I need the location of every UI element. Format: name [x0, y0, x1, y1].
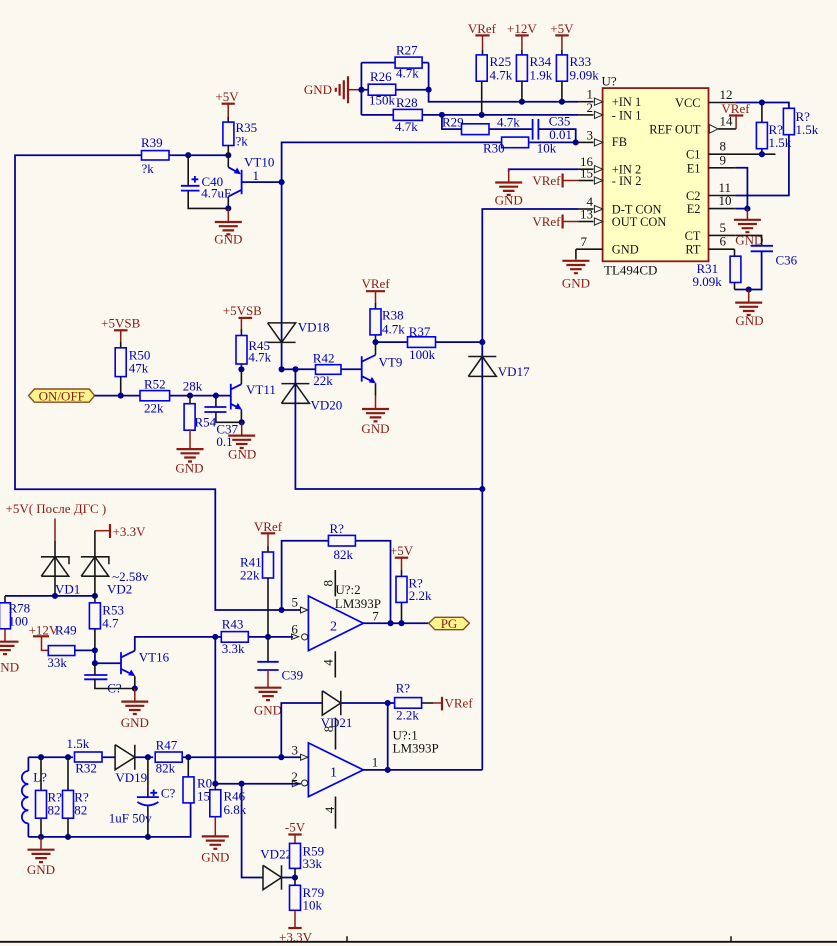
resistor R42	[296, 350, 362, 388]
pin R41 bottom long	[267, 578, 269, 637]
power port +5V( После ДГС )	[6, 501, 107, 541]
wire bottom rail	[28, 803, 190, 837]
node junction U1 out/pullup	[385, 767, 391, 773]
svg-text:13: 13	[580, 207, 593, 222]
node junction L? top	[38, 754, 44, 760]
svg-text:100k: 100k	[409, 347, 436, 362]
svg-text:~2.58v: ~2.58v	[112, 569, 149, 584]
svg-text:REF OUT: REF OUT	[649, 122, 701, 136]
svg-text:1: 1	[330, 766, 337, 781]
svg-text:82: 82	[74, 803, 87, 818]
resistor R? 82 (right)	[63, 757, 89, 837]
svg-text:82: 82	[48, 803, 61, 818]
svg-text:7: 7	[372, 609, 379, 624]
svg-text:R29: R29	[442, 115, 464, 130]
svg-text:1uF 50v: 1uF 50v	[109, 810, 152, 825]
svg-text:- IN 1: - IN 1	[612, 108, 642, 122]
capacitor C39	[257, 637, 303, 683]
svg-text:+5V: +5V	[550, 21, 574, 36]
svg-text:R47: R47	[156, 737, 178, 752]
svg-text:9: 9	[720, 152, 727, 167]
node junction VD21/R?	[385, 700, 391, 706]
svg-text:?k: ?k	[142, 161, 155, 176]
resistor R28	[361, 95, 422, 134]
svg-text:E1: E1	[687, 161, 701, 175]
power port VRef at pin13	[532, 214, 578, 229]
svg-text:28k: 28k	[183, 378, 203, 393]
ground GND left rotated (R26 net)	[304, 76, 360, 103]
svg-text:10k: 10k	[537, 140, 557, 155]
pin R33 bottom	[561, 81, 563, 102]
pin Ra top	[761, 103, 763, 123]
pin VT9 collector	[375, 342, 377, 355]
resistor R52	[140, 377, 170, 416]
svg-text:- IN 2: - IN 2	[612, 174, 642, 188]
port ON/OFF	[29, 388, 95, 403]
pin 7	[576, 234, 603, 249]
pin 1	[578, 87, 602, 106]
svg-text:GND: GND	[495, 193, 523, 208]
svg-text:5: 5	[291, 595, 298, 610]
pin 16	[578, 154, 602, 173]
pin 15	[578, 166, 602, 185]
resistor R50	[115, 348, 150, 377]
resistor R29	[442, 115, 532, 135]
pin R25 bottom long	[481, 81, 483, 115]
svg-text:R?: R?	[396, 680, 411, 695]
svg-text:6: 6	[291, 622, 298, 637]
pin R59 bottom	[294, 868, 296, 877]
svg-text:PG: PG	[441, 616, 458, 631]
wire U1 pin3 rail	[28, 756, 300, 758]
ground GND under R46	[201, 817, 229, 865]
pin VT16 emitter	[134, 676, 136, 688]
svg-text:10k: 10k	[303, 898, 323, 913]
pin R50 bottom	[120, 377, 122, 396]
svg-text:150k: 150k	[369, 93, 396, 108]
svg-text:GND: GND	[612, 243, 639, 257]
diode VD2 zener	[81, 531, 149, 597]
power port +3.3V bottom	[279, 910, 313, 944]
resistor R? 82k	[328, 521, 355, 562]
svg-text:+5VSB: +5VSB	[101, 315, 140, 330]
node junction VD1	[52, 593, 58, 599]
svg-text:R28: R28	[396, 95, 418, 110]
svg-text:4.7k: 4.7k	[395, 119, 418, 134]
svg-text:R54: R54	[195, 415, 217, 430]
wire U2 output	[363, 622, 428, 624]
svg-text:?k: ?k	[236, 134, 249, 149]
svg-text:R38: R38	[382, 308, 404, 323]
resistor R35	[223, 120, 257, 149]
resistor R38	[370, 308, 405, 337]
IC U? right pin names	[649, 96, 701, 257]
capacitor C37	[204, 407, 238, 449]
svg-text:VD19: VD19	[115, 770, 147, 785]
wire pin10	[735, 208, 747, 210]
node junction R59/R79/VD22	[292, 874, 298, 880]
svg-text:GND: GND	[175, 460, 203, 475]
resistor R53	[89, 596, 124, 651]
svg-text:4.7k: 4.7k	[497, 115, 520, 130]
resistor R39	[141, 135, 169, 176]
svg-text:VCC: VCC	[675, 96, 700, 110]
resistor R25	[476, 54, 513, 83]
svg-text:7: 7	[581, 234, 588, 249]
node junction C? bottom	[145, 834, 151, 840]
svg-text:+5V: +5V	[215, 89, 239, 104]
node junction R33 bottom	[559, 99, 565, 105]
wire vertical B R43 node to pin2 rail	[214, 637, 216, 784]
power port VRef above R38	[362, 276, 391, 309]
wire U1 output to DTCON vertical	[363, 769, 482, 771]
transistor VT9 (NPN)	[362, 354, 403, 383]
node junction feedback/output	[387, 620, 393, 626]
ground GND under R54	[175, 430, 203, 475]
node junction VT10 collector node	[225, 205, 231, 211]
svg-text:OUT CON: OUT CON	[612, 215, 667, 229]
node junction VT10 out / FB	[279, 179, 285, 185]
node junction C37 top	[213, 393, 219, 399]
node junction VD20 top	[292, 366, 298, 372]
svg-text:C2: C2	[686, 189, 700, 203]
power port +5V (above R35)	[215, 89, 239, 122]
diode VD1 zener	[41, 541, 80, 597]
svg-text:9.09k: 9.09k	[693, 274, 723, 289]
wire pin5 to C36	[735, 235, 761, 245]
resistor R78	[0, 596, 30, 629]
svg-text:CT: CT	[685, 229, 701, 243]
resistor R43	[215, 617, 293, 657]
svg-text:15: 15	[580, 166, 593, 181]
op-amp U?:2 LM393P	[291, 570, 381, 678]
node junction R?d bottom	[65, 834, 71, 840]
resistor R? 82 (left)	[36, 757, 63, 837]
resistor R49	[47, 646, 95, 670]
ground GND under VT16	[121, 689, 149, 731]
resistor R? 2.2k (PG pullup)	[396, 576, 432, 604]
resistor R27	[361, 43, 428, 81]
svg-text:FB: FB	[612, 135, 627, 149]
resistor R? 1.5k (left)	[756, 122, 791, 150]
resistor R34	[516, 54, 552, 83]
transistor VT16 (NPN)	[121, 650, 170, 677]
pin VT10 emitter top	[227, 155, 229, 167]
wire VD18 node to R42	[282, 368, 296, 370]
svg-text:+5V: +5V	[390, 543, 414, 558]
svg-text:C35: C35	[549, 113, 571, 128]
resistor R? 1.5k (right)	[783, 108, 818, 137]
node junction VD18 bottom	[279, 366, 285, 372]
IC U? TL494CD body	[602, 74, 709, 278]
wire D-T CON net long vertical	[482, 209, 578, 770]
power port +5VSB above R45	[223, 303, 262, 336]
svg-text:3: 3	[291, 742, 298, 757]
svg-text:VT10: VT10	[244, 155, 274, 170]
svg-text:4.7uF: 4.7uF	[201, 186, 231, 201]
power port +3.3V at VD2	[95, 524, 146, 539]
svg-text:4: 4	[320, 659, 335, 666]
svg-text:4: 4	[322, 806, 337, 813]
pin 5	[709, 220, 736, 236]
node junction L? bottom	[38, 834, 44, 840]
node junction DTCON/VD20 run	[479, 486, 485, 492]
wire C36 bottom	[735, 251, 762, 289]
diode VD18	[268, 320, 330, 343]
svg-text:R49: R49	[55, 622, 77, 637]
pin 13	[578, 207, 602, 226]
wire +IN1 net (pin 1 line)	[429, 63, 579, 102]
power port +12V at R49	[29, 622, 77, 650]
node junction VCC/Ra top	[759, 99, 765, 105]
diode VD22	[260, 847, 292, 890]
capacitor C40	[181, 174, 231, 201]
pin R35 bottom	[227, 146, 229, 156]
wire VD22 branch	[242, 784, 263, 878]
pin R45 bottom	[240, 364, 242, 369]
node junction R25 bottom	[479, 112, 485, 118]
node junction R46 top	[212, 781, 218, 787]
node junction R?d top	[65, 754, 71, 760]
svg-text:3: 3	[587, 127, 594, 142]
wire C40 pins	[188, 155, 228, 208]
power port VRef at pin15	[532, 173, 578, 188]
node junction pin5/feedback	[279, 607, 285, 613]
ground GND at pin7	[562, 249, 590, 290]
pin 10	[709, 193, 736, 209]
svg-text:2.2k: 2.2k	[409, 588, 432, 603]
resistor R30	[483, 137, 557, 155]
svg-text:R37: R37	[409, 324, 431, 339]
svg-text:TL494CD: TL494CD	[604, 263, 657, 278]
power port +5V (above R33)	[550, 21, 574, 55]
svg-text:82k: 82k	[334, 547, 354, 562]
resistor R46	[210, 784, 247, 817]
node junction R54 top	[187, 393, 193, 399]
svg-text:+5VSB: +5VSB	[223, 303, 262, 318]
resistor R? 2.2k (U1 pullup)	[395, 680, 422, 722]
pin 12	[709, 87, 736, 103]
pin 2	[578, 100, 602, 119]
svg-text:4.7: 4.7	[102, 616, 119, 631]
svg-text:R?: R?	[330, 521, 345, 536]
svg-text:GND: GND	[0, 660, 19, 675]
power port VRef at pin14	[721, 101, 750, 129]
ground GND under VT11	[228, 422, 256, 461]
ground GND under R78	[0, 629, 19, 675]
svg-text:2.2k: 2.2k	[396, 707, 419, 722]
wire U1 pin2 rail	[215, 783, 300, 785]
power port -5V	[285, 820, 306, 844]
power port +12V	[507, 21, 537, 55]
port PG	[429, 616, 470, 631]
node junction R39/C40	[185, 152, 191, 158]
pin 14 output arrow	[709, 114, 736, 134]
resistor R37	[376, 324, 483, 362]
capacitor C? 1uF 50v	[109, 757, 176, 837]
node junction C? top	[145, 754, 151, 760]
svg-text:6.8k: 6.8k	[224, 802, 247, 817]
wire VD1/VD2 rail	[5, 595, 95, 597]
svg-text:U?:2: U?:2	[335, 582, 360, 597]
transistor VT10 (PNP)	[228, 155, 274, 197]
capacitor C35	[533, 113, 572, 142]
wire VD22 to R59/R79 node	[282, 877, 296, 879]
pin 9	[709, 152, 736, 168]
svg-text:GND: GND	[201, 850, 229, 865]
svg-text:R42: R42	[313, 350, 335, 365]
wire C37 pins	[216, 396, 242, 423]
pin VT10 collector bottom	[227, 197, 229, 209]
svg-text:+IN 1: +IN 1	[612, 95, 641, 109]
node junction R38/VT9/R37	[372, 339, 378, 345]
svg-text:VRef: VRef	[468, 21, 497, 36]
node junction pin8/Ra	[759, 151, 765, 157]
wire net ON/OFF run: left vertical + bottom horizontal to U2 pin5	[15, 155, 301, 610]
power port VRef right of R?	[422, 696, 474, 711]
node junction R41/C39	[265, 634, 271, 640]
node junction GND/R26 left	[358, 87, 364, 93]
pin VT11 emitter	[240, 410, 242, 423]
ground GND under R31/C36	[735, 290, 763, 329]
svg-text:VD22: VD22	[260, 847, 292, 862]
svg-text:VRef: VRef	[532, 214, 561, 229]
svg-text:R26: R26	[370, 69, 392, 84]
svg-text:R30: R30	[483, 140, 505, 155]
pin 11	[709, 180, 736, 196]
svg-text:ON/OFF: ON/OFF	[39, 388, 85, 403]
diode VD21	[321, 691, 353, 730]
resistor R33	[556, 54, 599, 83]
IC U? left pin names	[612, 95, 667, 257]
svg-text:C?: C?	[161, 786, 176, 801]
wire pin9 to E-junction	[735, 168, 747, 209]
svg-text:VRef: VRef	[362, 276, 391, 291]
ground GND at E2	[734, 209, 763, 248]
svg-text:4.7k: 4.7k	[396, 66, 419, 81]
capacitor C? (VT16)	[84, 675, 122, 696]
svg-text:9.09k: 9.09k	[570, 68, 600, 83]
wire VD21 net	[281, 703, 394, 757]
wire VT10 base to FB node	[246, 181, 282, 183]
inductor L?	[22, 757, 47, 837]
wire pin16 to GND corner	[509, 169, 579, 172]
svg-text:8: 8	[320, 580, 335, 587]
node junction R31/C36 gnd	[746, 286, 752, 292]
node junction VT11 emitter/C37	[239, 419, 245, 425]
svg-text:1.5k: 1.5k	[796, 122, 819, 137]
ground GND bottom left	[27, 837, 55, 877]
svg-text:4.7k: 4.7k	[490, 68, 513, 83]
sheet border bottom	[0, 936, 837, 942]
wire pin11 to Rb bottom	[735, 135, 789, 196]
node junction R29 tap	[439, 112, 445, 118]
ground GND under VT10	[214, 208, 242, 246]
wire R53 node to base node	[94, 650, 96, 663]
svg-text:VT11: VT11	[246, 382, 276, 397]
svg-text:1.9k: 1.9k	[530, 68, 553, 83]
resistor R0	[183, 757, 217, 803]
svg-text:VRef: VRef	[445, 696, 474, 711]
svg-text:GND: GND	[254, 703, 282, 718]
svg-text:GND: GND	[562, 276, 590, 291]
pin VT11 collector	[240, 369, 242, 384]
pin Ra bottom	[761, 149, 763, 155]
resistor R59	[290, 843, 325, 871]
resistor R41	[240, 552, 274, 583]
svg-text:VT16: VT16	[139, 650, 170, 665]
node junction pin3/VD21	[278, 754, 284, 760]
node junction R50/ONOFF wire	[118, 393, 124, 399]
svg-text:1.5k: 1.5k	[67, 736, 90, 751]
svg-text:VRef: VRef	[254, 519, 283, 534]
svg-text:+5V( После ДГС ): +5V( После ДГС )	[6, 501, 107, 516]
svg-text:-5V: -5V	[285, 820, 306, 835]
svg-text:C36: C36	[776, 253, 798, 268]
diode VD17	[468, 357, 530, 380]
diode VD19	[115, 745, 147, 785]
node junction R47/R0	[185, 754, 191, 760]
svg-text:R39: R39	[141, 135, 163, 150]
svg-text:RT: RT	[685, 243, 701, 257]
svg-text:100: 100	[9, 614, 29, 629]
svg-text:+12V: +12V	[507, 21, 537, 36]
ground GND at pin16	[495, 169, 523, 207]
svg-text:1: 1	[372, 755, 379, 770]
svg-text:2: 2	[291, 769, 298, 784]
pin R31 bottom	[734, 283, 736, 290]
svg-text:GND: GND	[214, 232, 242, 247]
svg-text:3.3k: 3.3k	[222, 641, 245, 656]
resistor R32	[67, 736, 103, 776]
wire R39 right to VT10 emitter node	[169, 154, 228, 156]
svg-text:5: 5	[720, 220, 727, 235]
wire R27/R28 left vertical	[360, 63, 362, 115]
power port +5VSB above R50	[101, 315, 140, 348]
wire VCC net to resistors	[735, 103, 789, 109]
node junction pullup/output	[398, 620, 404, 626]
diode VD20	[281, 384, 342, 413]
resistor R47	[155, 737, 182, 775]
wire U2 pin5 feedback vertical	[282, 541, 391, 624]
node junction R34 bottom	[519, 99, 525, 105]
svg-text:GND: GND	[121, 715, 149, 730]
capacitor C36	[751, 246, 798, 268]
node junction R35/VT10 emitter	[225, 152, 231, 158]
svg-text:U?: U?	[602, 74, 617, 89]
svg-text:12: 12	[720, 87, 733, 102]
node junction pin10/pin9	[744, 206, 750, 212]
svg-text:R43: R43	[222, 617, 244, 632]
node junction R45/VT11 collector	[238, 366, 244, 372]
svg-text:47k: 47k	[129, 361, 149, 376]
svg-text:VT9: VT9	[379, 354, 403, 369]
svg-text:GND: GND	[361, 421, 389, 436]
node junction base/C?	[92, 660, 98, 666]
svg-text:VD17: VD17	[498, 364, 530, 379]
svg-text:GND: GND	[735, 313, 763, 328]
wire C35 right to FB	[538, 129, 575, 142]
resistor R31	[693, 256, 741, 289]
transistor VT11 (NPN)	[231, 382, 276, 410]
ground GND under C39	[254, 670, 282, 718]
power port VRef above R41	[254, 519, 283, 552]
svg-text:C39: C39	[282, 668, 304, 683]
svg-text:82k: 82k	[156, 761, 176, 776]
node junction FB/C35/R30	[573, 139, 579, 145]
svg-text:8: 8	[321, 726, 336, 733]
op-amp U?:1 LM393P	[291, 718, 438, 829]
